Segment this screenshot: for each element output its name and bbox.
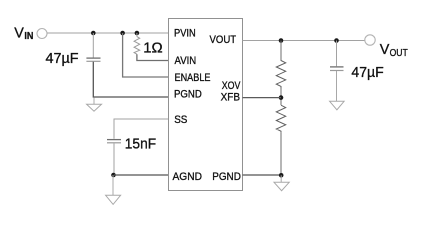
junction node C1 top xyxy=(91,31,96,36)
wire C3 bottom xyxy=(336,71,338,101)
svg-text:IN: IN xyxy=(24,31,33,42)
wire C2 bottom xyxy=(113,143,115,175)
svg-text:1Ω: 1Ω xyxy=(143,39,163,56)
svg-text:PGND: PGND xyxy=(174,88,202,100)
wire AGND xyxy=(114,174,169,176)
IC U1 body xyxy=(169,19,243,191)
capacitor C3 47uF xyxy=(330,67,344,71)
label VOUT xyxy=(380,41,409,59)
wire R1 bottom to AVIN xyxy=(137,54,169,60)
wire C1 top stub xyxy=(92,33,94,58)
wire R3 bottom xyxy=(280,133,282,175)
svg-text:XFB: XFB xyxy=(221,92,240,104)
svg-text:XOV: XOV xyxy=(222,80,241,92)
output terminal VOUT xyxy=(365,35,375,45)
svg-text:PGND: PGND xyxy=(212,171,241,183)
junction node R1 top xyxy=(135,31,140,36)
svg-text:PVIN: PVIN xyxy=(174,28,196,40)
wire XFB xyxy=(243,97,282,99)
ground G4 xyxy=(274,175,289,190)
wire R2 to R3 xyxy=(280,89,282,106)
capacitor C2 15nF xyxy=(107,140,121,143)
wire C1 bottom to PGND xyxy=(93,62,169,97)
wire R1 top stub xyxy=(136,33,138,37)
svg-text:SS: SS xyxy=(174,114,187,126)
wire VIN to PVIN xyxy=(47,32,169,34)
capacitor C1 47uF xyxy=(86,58,100,61)
svg-text:15nF: 15nF xyxy=(125,136,156,153)
junction node ENABLE branch xyxy=(120,31,125,36)
svg-text:ENABLE: ENABLE xyxy=(175,72,211,84)
svg-text:VOUT: VOUT xyxy=(210,34,237,46)
ground G3 xyxy=(330,101,345,110)
wire C3 top stub xyxy=(336,41,338,67)
junction node PGND ground xyxy=(279,173,284,178)
resistor R2 xyxy=(276,61,285,89)
junction node C3 top xyxy=(334,38,339,43)
wire divider top stub xyxy=(280,41,282,62)
svg-text:V: V xyxy=(14,25,24,42)
wire SS branch xyxy=(114,119,169,139)
ground G2 xyxy=(106,175,121,204)
resistor R3 xyxy=(276,105,285,133)
svg-text:47µF: 47µF xyxy=(46,50,79,67)
svg-text:47µF: 47µF xyxy=(351,64,383,81)
wire VOUT to output terminal xyxy=(243,40,366,42)
ground G1 xyxy=(87,98,102,112)
junction node XFB xyxy=(279,95,284,100)
label VIN xyxy=(14,25,33,43)
junction node divider top xyxy=(279,38,284,43)
svg-text:V: V xyxy=(380,41,390,58)
input terminal VIN xyxy=(37,29,47,39)
svg-text:AVIN: AVIN xyxy=(175,55,197,67)
wire PGND right xyxy=(243,174,282,176)
wire ENABLE branch xyxy=(123,33,169,77)
svg-text:AGND: AGND xyxy=(173,171,203,183)
svg-text:OUT: OUT xyxy=(390,48,409,59)
resistor R1 1 ohm xyxy=(134,37,140,55)
junction node AGND xyxy=(111,173,116,178)
